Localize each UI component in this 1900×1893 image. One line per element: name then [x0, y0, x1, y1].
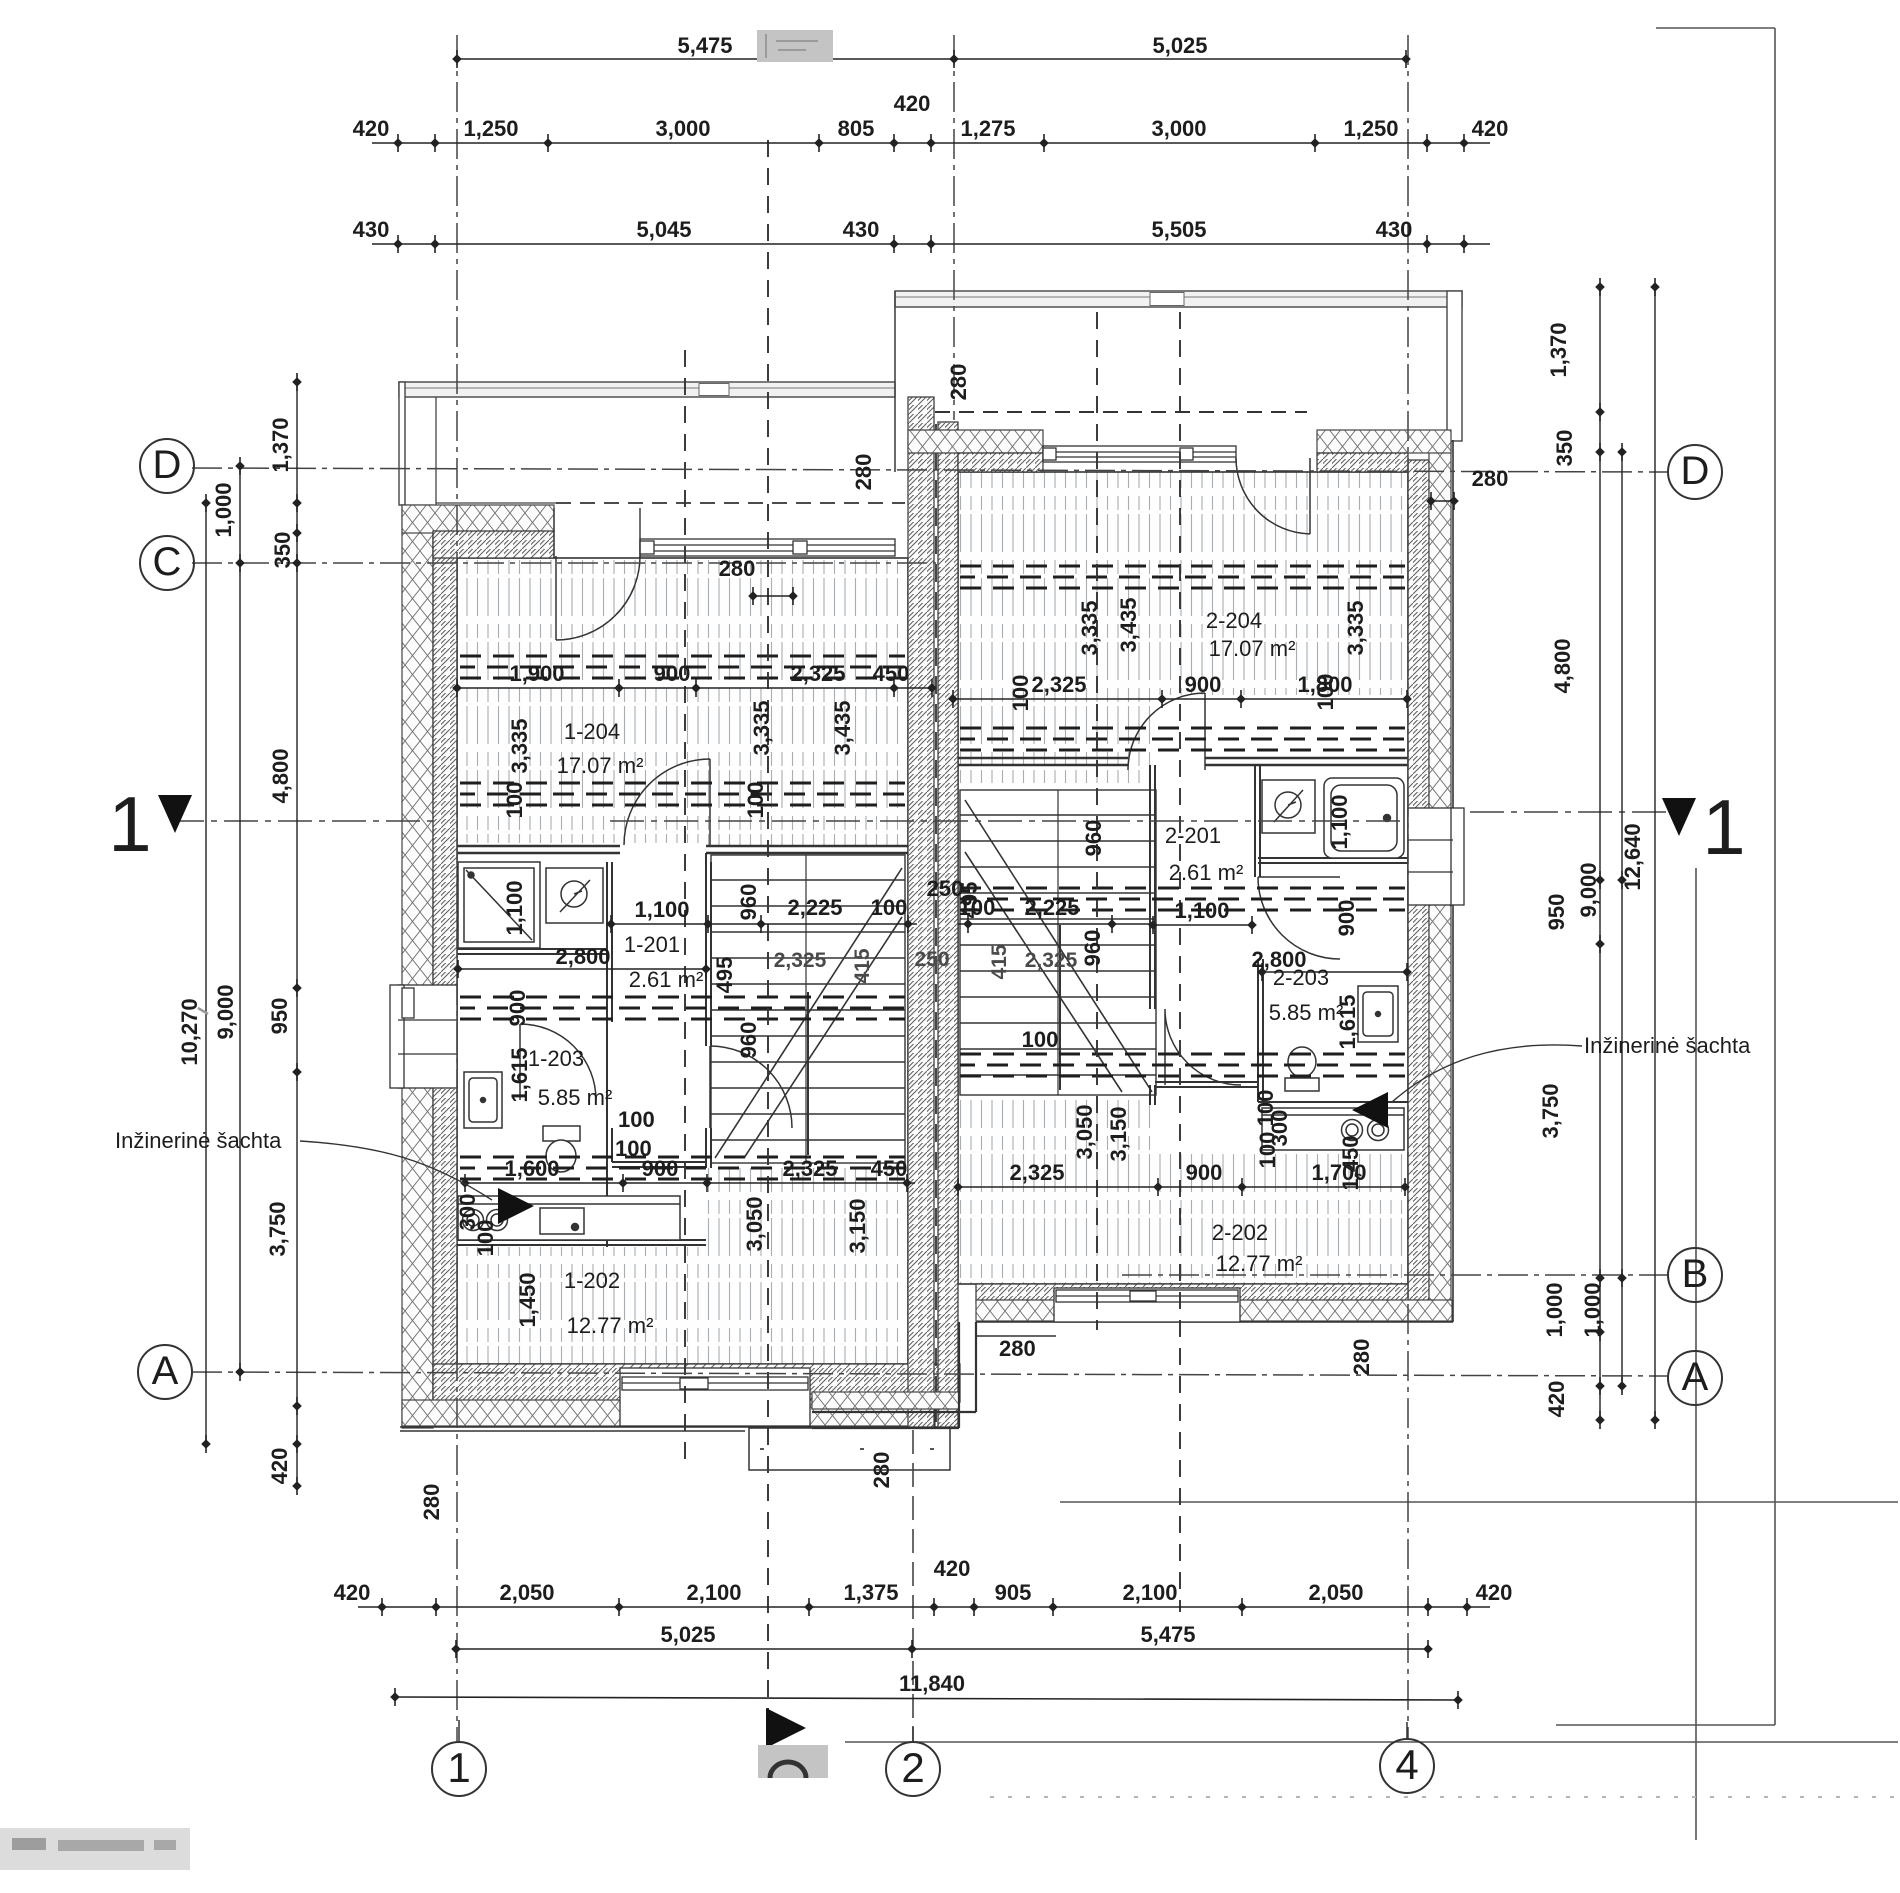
svg-text:5.85 m²: 5.85 m²: [538, 1085, 613, 1110]
right wall masonry band: [1408, 460, 1429, 1310]
scan frame line right outer: [845, 28, 1898, 1840]
right WC glyph: [1262, 780, 1315, 833]
svg-text:3,435: 3,435: [1116, 597, 1141, 652]
svg-text:900: 900: [654, 661, 691, 686]
svg-text:2.61 m²: 2.61 m²: [629, 967, 704, 992]
svg-text:1: 1: [1702, 783, 1745, 871]
right partition niche walls: [1255, 765, 1408, 1102]
right wall outer line: [1452, 440, 1454, 1322]
dim row2 top line 420-1250-3000: [353, 91, 1509, 152]
dim bottom rowA 420-2050: [334, 1556, 1513, 1616]
door arc terrace right: [1236, 458, 1310, 534]
svg-text:900: 900: [1185, 672, 1222, 697]
svg-text:D: D: [153, 443, 182, 487]
door jambs left top wall: [554, 508, 640, 558]
door arc terrace left: [556, 556, 640, 640]
top-left wall insulation: [402, 505, 554, 533]
svg-text:100: 100: [1008, 675, 1033, 712]
right dim row 2325-900-1700: [953, 1160, 1410, 1196]
svg-text:4,800: 4,800: [1550, 638, 1575, 693]
svg-text:17.07 m²: 17.07 m²: [557, 753, 644, 778]
svg-text:A: A: [152, 1349, 179, 1393]
left stairs: [711, 855, 905, 1163]
svg-text:9,000: 9,000: [213, 984, 238, 1039]
bottom-left wall outer line: [400, 1427, 960, 1431]
right dim row 100-2225: [958, 895, 1155, 933]
svg-text:1,250: 1,250: [463, 116, 518, 141]
left chain 10270: [177, 494, 211, 1453]
svg-text:5,505: 5,505: [1151, 217, 1206, 242]
svg-text:900: 900: [1334, 900, 1359, 937]
top-right window band: [1043, 446, 1236, 462]
scan artifact bottom-left corner: [0, 1828, 190, 1870]
svg-text:960: 960: [736, 1022, 761, 1059]
left partition corridor wall: [607, 862, 612, 1247]
dim row3 top line 430-5045: [353, 217, 1490, 253]
svg-text:11,840: 11,840: [899, 1671, 965, 1696]
axis 4 vertical dashdot: [1407, 35, 1409, 1740]
svg-text:280: 280: [419, 1484, 444, 1521]
svg-text:1,100: 1,100: [502, 880, 527, 935]
svg-text:100: 100: [1022, 1027, 1059, 1052]
aux dashed line x1097: [1096, 312, 1098, 1330]
rotated room dims right: [1008, 597, 1368, 1190]
beam row R4: [960, 1054, 1405, 1076]
svg-text:950: 950: [267, 998, 292, 1035]
beam row R3: [960, 888, 1405, 910]
beam row R1: [960, 566, 1405, 588]
svg-text:450: 450: [871, 1156, 908, 1181]
svg-text:2,325: 2,325: [774, 949, 827, 972]
svg-text:420: 420: [934, 1556, 971, 1581]
svg-text:280: 280: [946, 364, 971, 401]
svg-text:2,325: 2,325: [782, 1156, 837, 1181]
svg-text:2-204: 2-204: [1206, 608, 1262, 633]
scan artifact top smudge: [757, 30, 833, 62]
svg-text:100: 100: [871, 895, 908, 920]
bottom-left porch step: [749, 1428, 950, 1470]
svg-text:1,100: 1,100: [1174, 898, 1229, 923]
svg-text:D: D: [1681, 449, 1710, 493]
top-right wall masonry: [958, 453, 1043, 472]
svg-text:960: 960: [1080, 930, 1105, 967]
svg-text:9,000: 9,000: [1576, 862, 1601, 917]
svg-text:420: 420: [267, 1448, 292, 1485]
grid bubble B right: [1668, 1248, 1722, 1302]
right unit floor hatch room 2-204/2-202: [958, 472, 1408, 1284]
svg-text:5,025: 5,025: [660, 1622, 715, 1647]
bottom-right wall masonry: [976, 1284, 1408, 1304]
grid bubble D right: [1668, 445, 1722, 499]
svg-text:1,375: 1,375: [843, 1580, 898, 1605]
svg-text:2: 2: [901, 1744, 924, 1791]
svg-text:12.77 m²: 12.77 m²: [1216, 1251, 1303, 1276]
grid bubble A right: [1668, 1351, 1722, 1405]
svg-text:100: 100: [1255, 1132, 1280, 1169]
beam row L2: [460, 783, 905, 805]
svg-text:1,100: 1,100: [634, 897, 689, 922]
svg-text:495: 495: [957, 882, 982, 919]
svg-text:5,025: 5,025: [1152, 33, 1207, 58]
left dim row 1100: [606, 897, 713, 933]
svg-text:280: 280: [1472, 466, 1509, 491]
svg-text:1-201: 1-201: [624, 932, 680, 957]
svg-text:1-202: 1-202: [564, 1268, 620, 1293]
left toilet 1-203: [543, 1126, 580, 1172]
grid bubble C left: [140, 536, 194, 590]
aux dashed line x1180: [1179, 312, 1181, 1612]
svg-text:B: B: [1682, 1252, 1709, 1296]
svg-text:415: 415: [851, 948, 874, 983]
left stairwell white floor: [705, 846, 908, 1168]
svg-text:950: 950: [1544, 894, 1569, 931]
svg-text:3,050: 3,050: [1072, 1104, 1097, 1159]
svg-text:2,225: 2,225: [787, 895, 842, 920]
svg-text:4: 4: [1395, 1741, 1418, 1788]
left shaft arrow: [498, 1188, 534, 1224]
svg-text:C: C: [153, 540, 182, 584]
svg-text:280: 280: [719, 556, 756, 581]
svg-text:1,250: 1,250: [1343, 116, 1398, 141]
svg-text:1,370: 1,370: [1546, 322, 1571, 377]
svg-text:805: 805: [838, 116, 875, 141]
svg-text:1-204: 1-204: [564, 719, 620, 744]
right toilet 2-203: [1285, 1047, 1319, 1091]
rotated room dims left: [455, 700, 870, 1327]
bottom-left wall insulation: [402, 1400, 935, 1426]
door arc room 2-204: [1128, 693, 1205, 770]
svg-text:1,450: 1,450: [515, 1272, 540, 1327]
grey stair dims left: [502, 876, 963, 1058]
svg-text:420: 420: [1472, 116, 1509, 141]
svg-text:2-202: 2-202: [1212, 1220, 1268, 1245]
right stairs: [960, 790, 1156, 1095]
svg-text:280: 280: [869, 1452, 894, 1489]
svg-text:3,435: 3,435: [830, 700, 855, 755]
right chain detail: [1538, 278, 1605, 1429]
svg-text:1,000: 1,000: [1580, 1282, 1605, 1337]
svg-text:5,045: 5,045: [636, 217, 691, 242]
svg-text:A: A: [1682, 1355, 1709, 1399]
svg-text:415: 415: [988, 944, 1011, 979]
left unit bath/corridor white floor: [457, 843, 706, 1247]
svg-text:3,150: 3,150: [1106, 1106, 1131, 1161]
svg-text:2,050: 2,050: [499, 1580, 554, 1605]
svg-text:1,370: 1,370: [268, 417, 293, 472]
dim bottom rowB 5025/5475: [451, 1622, 1433, 1658]
svg-text:2-203: 2-203: [1273, 965, 1329, 990]
svg-text:12,640: 12,640: [1620, 823, 1645, 890]
svg-text:430: 430: [1376, 217, 1413, 242]
svg-text:2,800: 2,800: [555, 944, 610, 969]
beam row L3: [460, 997, 905, 1019]
grid bubble 1 bottom: [432, 1720, 486, 1796]
left unit interior outline: [457, 558, 908, 1364]
svg-text:350: 350: [1552, 430, 1577, 467]
svg-text:495: 495: [712, 957, 737, 994]
axis D horizontal dashdot: [192, 468, 1668, 472]
svg-text:2,325: 2,325: [1025, 949, 1078, 972]
axis 1 vertical dashdot: [456, 35, 458, 1742]
svg-text:900: 900: [505, 990, 530, 1027]
top-right wall insulation: [908, 430, 1043, 453]
svg-text:1,450: 1,450: [1338, 1135, 1363, 1190]
door arc 1-203: [520, 1024, 596, 1100]
svg-text:100: 100: [1313, 674, 1338, 711]
top-left window band: [640, 539, 895, 556]
left wall insulation band: [402, 505, 433, 1428]
right dim 2800: [1251, 947, 1411, 981]
right chain 9000: [1576, 443, 1627, 1395]
svg-text:430: 430: [843, 217, 880, 242]
svg-text:3,750: 3,750: [1538, 1083, 1563, 1138]
right unit bath/corridor white floor: [1152, 695, 1408, 1152]
left dim row 1600-900-2325-450: [460, 1156, 915, 1192]
svg-text:Inžinerinė šachta: Inžinerinė šachta: [1584, 1033, 1751, 1058]
porch inner mark: [760, 1448, 934, 1450]
scan speck left: [198, 1008, 208, 1014]
svg-text:1: 1: [447, 1744, 470, 1791]
left counter with sink: [458, 1196, 680, 1240]
svg-text:250: 250: [914, 948, 949, 971]
bottom-right wall outer line: [976, 1322, 1453, 1336]
svg-text:1,275: 1,275: [960, 116, 1015, 141]
svg-text:420: 420: [894, 91, 931, 116]
svg-text:420: 420: [1476, 1580, 1513, 1605]
right partition 2-203 bottom: [1155, 1082, 1408, 1102]
right counter with sink: [1262, 1108, 1404, 1150]
right partition wall room 2-204 bottom: [958, 758, 1408, 765]
axis A horizontal dashdot: [192, 1372, 1668, 1376]
axis C horizontal dashdot: [192, 562, 936, 564]
right bathtub: [1324, 778, 1404, 858]
svg-text:3,750: 3,750: [265, 1201, 290, 1256]
svg-text:430: 430: [353, 217, 390, 242]
svg-text:3,050: 3,050: [742, 1196, 767, 1251]
right wall insulation band: [1429, 440, 1451, 1320]
left unit floor hatch room 1-204/1-202: [457, 558, 908, 1364]
svg-text:3,335: 3,335: [507, 718, 532, 773]
svg-text:3,000: 3,000: [655, 116, 710, 141]
left dim 2800: [453, 944, 711, 978]
grid bubble 4 bottom: [1380, 1722, 1434, 1793]
right shaft arrow: [1352, 1092, 1388, 1128]
svg-text:280: 280: [999, 1336, 1036, 1361]
svg-text:3,335: 3,335: [1077, 600, 1102, 655]
bottom center step wall: [812, 1322, 976, 1428]
door arc 1-202: [710, 1046, 792, 1128]
svg-text:100: 100: [618, 1107, 655, 1132]
svg-text:3,335: 3,335: [749, 700, 774, 755]
left WC glyph: [546, 868, 603, 923]
svg-text:12.77 m²: 12.77 m²: [567, 1313, 654, 1338]
dim bottom rowC 11840: [390, 1671, 1463, 1709]
right chain 12640: [1620, 278, 1660, 1429]
svg-text:5,475: 5,475: [677, 33, 732, 58]
svg-text:2.61 m²: 2.61 m²: [1169, 860, 1244, 885]
scan artifact dotted line bottom right: [990, 1796, 1895, 1798]
aux dashed line x685: [684, 350, 686, 1468]
door arc 2-202: [1165, 1009, 1241, 1085]
left wall window gap: [390, 985, 457, 1088]
beam row L1: [460, 656, 905, 678]
svg-text:960: 960: [1081, 820, 1106, 857]
svg-text:2,100: 2,100: [686, 1580, 741, 1605]
section marker 1 right: [1662, 783, 1746, 871]
svg-text:420: 420: [334, 1580, 371, 1605]
svg-text:1-203: 1-203: [528, 1046, 584, 1071]
svg-text:2,100: 2,100: [1122, 1580, 1177, 1605]
bottom-left wall masonry: [433, 1364, 960, 1402]
left washbasin 1-203: [464, 1072, 502, 1128]
left dim row 1900-900-2325-450: [452, 661, 937, 697]
svg-text:100: 100: [615, 1136, 652, 1161]
svg-text:Inžinerinė šachta: Inžinerinė šachta: [115, 1128, 282, 1153]
grey stair dims right: [957, 794, 1360, 1049]
grid bubble A left: [138, 1345, 192, 1399]
party wall gap dashed: [935, 424, 937, 1426]
svg-text:1,100: 1,100: [1327, 794, 1352, 849]
svg-text:450: 450: [873, 661, 910, 686]
bottom-right wall insulation: [976, 1300, 1452, 1321]
svg-text:280: 280: [851, 454, 876, 491]
svg-text:4,800: 4,800: [268, 748, 293, 803]
left chain detail: [265, 373, 302, 1495]
right washbasin 2-203: [1358, 986, 1398, 1042]
svg-text:1,600: 1,600: [504, 1156, 559, 1181]
svg-text:350: 350: [270, 532, 295, 569]
bottom-left window band: [620, 1368, 810, 1426]
svg-text:5.85 m²: 5.85 m²: [1269, 1000, 1344, 1025]
section line 1-1 dashdot: [170, 812, 1668, 821]
svg-text:960: 960: [736, 884, 761, 921]
dim row1 top line 5475/5025: [452, 33, 1411, 68]
left partition stairwell wall: [612, 853, 711, 1168]
axis B horizontal dashdot: [1122, 1274, 1668, 1276]
right partition corridor wall: [1150, 765, 1155, 1105]
grid bubble 2 bottom: [886, 1726, 940, 1796]
svg-text:3,335: 3,335: [1343, 600, 1368, 655]
left partition niche bottom: [457, 949, 607, 954]
aux dashed line x768: [767, 140, 769, 1730]
svg-text:2,325: 2,325: [1031, 672, 1086, 697]
svg-text:1,900: 1,900: [509, 661, 564, 686]
left chain 9000: [211, 457, 245, 1381]
svg-text:280: 280: [1349, 1339, 1374, 1376]
svg-text:100: 100: [473, 1220, 498, 1257]
svg-text:1,000: 1,000: [211, 482, 236, 537]
right wall window gap: [1408, 808, 1464, 905]
svg-text:2,225: 2,225: [1024, 895, 1079, 920]
top-left wall masonry: [433, 531, 554, 558]
svg-text:2,325: 2,325: [1009, 1160, 1064, 1185]
svg-text:420: 420: [1544, 1381, 1569, 1418]
svg-text:2-201: 2-201: [1165, 823, 1221, 848]
svg-text:100: 100: [743, 782, 768, 819]
beam row L4: [460, 1157, 905, 1179]
left partition wall room 1-204 bottom: [457, 846, 908, 853]
door arc 2-203: [1258, 877, 1340, 959]
right dim row 2325-900-1800: [948, 672, 1412, 708]
party wall left leaf: [908, 397, 934, 1427]
party wall right leaf: [938, 422, 958, 1427]
beam row R2: [960, 728, 1405, 750]
right terrace top band: [895, 291, 1462, 472]
left wall masonry band: [433, 520, 457, 1400]
right dim row 1100: [1148, 898, 1257, 934]
svg-text:3,000: 3,000: [1151, 116, 1206, 141]
svg-text:900: 900: [1186, 1160, 1223, 1185]
left partition bath bottom wall: [457, 1240, 706, 1245]
svg-text:2,050: 2,050: [1308, 1580, 1363, 1605]
axis 2 vertical dashed bottom: [912, 1430, 914, 1742]
grid bubble D left: [140, 439, 194, 493]
door arc room 1-204: [624, 759, 710, 845]
left shower cabin: [458, 862, 540, 948]
right unit interior outline: [958, 472, 1408, 1284]
svg-text:5,475: 5,475: [1140, 1622, 1195, 1647]
svg-text:100: 100: [502, 782, 527, 819]
svg-text:420: 420: [353, 116, 390, 141]
svg-text:17.07 m²: 17.07 m²: [1209, 636, 1296, 661]
right stairwell white floor: [958, 783, 1160, 1100]
section marker 1 left: [108, 780, 192, 868]
svg-text:2,325: 2,325: [790, 661, 845, 686]
left terrace top band: [399, 382, 905, 505]
scan artifact bottom marker: [758, 1708, 828, 1778]
left dim row 2225-100: [708, 895, 917, 933]
svg-text:1: 1: [108, 780, 151, 868]
svg-text:3,150: 3,150: [845, 1198, 870, 1253]
aux dashdot x954 top: [953, 35, 955, 420]
svg-text:1,000: 1,000: [1542, 1282, 1567, 1337]
bottom-right window band: [1054, 1288, 1240, 1322]
svg-text:905: 905: [995, 1580, 1032, 1605]
